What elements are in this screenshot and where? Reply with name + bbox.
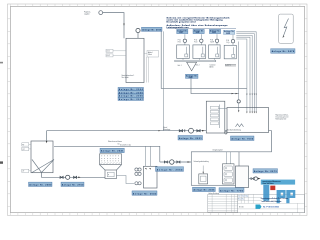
svg-text:Zul.1: Zul.1 (107, 51, 111, 53)
OUTFALL (249, 169, 296, 185)
inner pump box (107, 172, 114, 177)
filter cell 2 (224, 172, 233, 177)
inlet arrow into clarifier (46, 141, 48, 143)
side tag box (147, 51, 159, 58)
tag leader wires (113, 51, 126, 56)
svg-text:2003: 2003 (212, 32, 216, 34)
svg-text:Anlage Nr. 2064: Anlage Nr. 2064 (157, 168, 184, 171)
inner drawing border (11, 6, 305, 212)
BOTTOM2035 (191, 148, 248, 192)
dosing pump D2 (200, 39, 203, 42)
air line 2 (236, 34, 254, 113)
receiving water banner (261, 180, 295, 185)
tee mark (184, 129, 186, 132)
svg-text:2040: 2040 (189, 76, 193, 79)
svg-text:Umbau Belebung: Umbau Belebung (208, 193, 219, 195)
main inflow wire (47, 130, 207, 132)
air line 4 (236, 37, 250, 112)
clarifier tag box 2 (22, 147, 29, 150)
svg-text:Anlage Nr. 2007: Anlage Nr. 2007 (119, 98, 144, 101)
sludge drain (42, 173, 106, 178)
svg-text:C-Qu: C-Qu (226, 42, 230, 44)
svg-text:VerL 1: VerL 1 (178, 65, 182, 67)
svg-text:Anlage Nr. 2073: Anlage Nr. 2073 (254, 170, 277, 173)
label Anlage Nr. 2003 (209, 29, 220, 33)
pump P2016 circle (136, 28, 140, 32)
svg-text:Anlage Nr. 2041: Anlage Nr. 2041 (101, 150, 124, 153)
filter cell 1 (224, 166, 233, 171)
outfall valve (251, 178, 254, 180)
overflow link (219, 108, 228, 110)
instrument circle (237, 100, 240, 103)
ruler ticks (11, 4, 300, 6)
instrument drop arrow (238, 103, 240, 111)
svg-text:VerL 2: VerL 2 (196, 65, 200, 67)
svg-text:P 02: P 02 (194, 40, 197, 42)
polymer pump circle (99, 11, 103, 15)
svg-text:Bea: Bea (238, 199, 241, 201)
blower pair 3 (135, 182, 138, 185)
revision table grid (208, 194, 238, 212)
label Anlage Nr. 7005 (231, 136, 255, 141)
label Anlage Nr. 2002 (193, 29, 204, 33)
transfer wire (225, 130, 227, 132)
dosing pump D1 (183, 39, 186, 42)
red logo square (270, 186, 275, 191)
selector tank body (206, 101, 225, 133)
label Anlage Nr. 2035 (193, 187, 216, 191)
label Anlage Nr. 2042 (132, 191, 157, 195)
ipp letter p2 (286, 190, 295, 203)
CLUSTER (175, 29, 237, 79)
pump P2064 (170, 160, 174, 164)
svg-text:Zulauf: Zulauf (163, 127, 168, 129)
outfall pump (254, 177, 257, 180)
compressor stub (202, 166, 204, 173)
svg-text:Speicherbecken 1: Speicherbecken 1 (122, 75, 135, 77)
instrument line (238, 42, 240, 100)
title block rows (238, 197, 305, 209)
vessel B3 (209, 45, 221, 59)
drop pipe from pump label (161, 31, 247, 88)
POLYMER FEED (84, 11, 125, 39)
pump P2750 (66, 175, 70, 179)
drop pipe to main line (163, 31, 165, 130)
TITLEBLOCK (208, 193, 305, 213)
label Anlage Nr. 7780 (219, 188, 244, 193)
inlet tag box 2 (106, 54, 113, 57)
effluent pump line (160, 161, 192, 163)
centering mark left upper (0, 62, 3, 64)
svg-text:Zul.2: Zul.2 (107, 55, 111, 57)
pump P2031 (189, 128, 194, 133)
outfall arrow (258, 178, 261, 180)
internal cell stack (211, 106, 219, 109)
svg-text:Druckluft gespeist wird: Druckluft gespeist wird (167, 21, 197, 24)
diffuser tips (246, 112, 257, 114)
air line 5 (236, 39, 247, 112)
svg-text:Drosselung gem. der: Drosselung gem. der (276, 116, 289, 118)
flow arrow (78, 177, 80, 179)
svg-text:2002: 2002 (196, 32, 200, 34)
teal glyph (256, 205, 262, 209)
svg-text:Anlage Nr. 2035: Anlage Nr. 2035 (193, 189, 215, 192)
side tag leader (144, 53, 147, 55)
effluent air line (54, 146, 160, 162)
final tank body (236, 166, 249, 188)
air header from blower (191, 78, 239, 93)
air risers (146, 146, 151, 166)
dosing pump D4 (231, 40, 234, 43)
svg-text:Anlage Nr. 2016: Anlage Nr. 2016 (142, 29, 162, 32)
clarifier tag box 1 (22, 143, 29, 146)
svg-text:Anlage Nr. 2042: Anlage Nr. 2042 (133, 192, 157, 195)
air line 3 (236, 35, 252, 112)
label Anlage Nr. 2016 (142, 27, 163, 31)
svg-text:NaOH: NaOH (210, 41, 214, 43)
fixed bed reactor box (100, 154, 122, 165)
AIRLINES (191, 32, 257, 114)
valve V3 (179, 130, 182, 132)
housing inner drops (227, 152, 231, 164)
bottom hatch (101, 162, 121, 164)
vessel drains (183, 58, 214, 60)
aeration tank body (227, 108, 269, 133)
pump P2016 riser (137, 33, 139, 39)
valve V5 (164, 161, 167, 163)
label Anlage Nr. 2008 (224, 30, 235, 34)
manifold trough (175, 60, 216, 62)
connector to blowers (117, 176, 135, 184)
blower pair 1 (135, 168, 138, 171)
svg-text:QIT: QIT (22, 149, 24, 151)
ipp letter p1 (277, 190, 286, 203)
svg-text:Gez: Gez (242, 196, 245, 198)
filter cell 3 (224, 178, 233, 183)
media dots (101, 156, 119, 162)
UNIT2041 (100, 140, 135, 184)
transfer valve dot (225, 132, 227, 134)
biofilter housing (191, 152, 239, 186)
label Anlage Nr. 2478 (271, 49, 295, 53)
hopper under reactor (100, 165, 122, 170)
valve V2 (74, 176, 77, 178)
compressor inner (201, 176, 207, 181)
tag leaders (29, 144, 31, 170)
svg-text:Anlage Nr. 2080: Anlage Nr. 2080 (29, 184, 52, 187)
outfall wire (249, 178, 252, 180)
title block columns (241, 194, 297, 212)
svg-text:2008: 2008 (226, 33, 230, 35)
header junction arrows (232, 93, 238, 94)
blower house box (144, 166, 158, 188)
air line 1 (236, 32, 256, 112)
vessel B2 (193, 45, 206, 59)
effluent drop pipe (239, 131, 272, 152)
svg-text:Ingenieurgesellschaft Prof. Cz: Ingenieurgesellschaft Prof. Czurda (261, 197, 288, 200)
wire polymer to tank (103, 13, 124, 39)
valve V1 (60, 176, 63, 178)
gray double bar (225, 65, 236, 66)
svg-text:zum Vorfluter: zum Vorfluter (263, 182, 274, 185)
valve V4 (197, 130, 200, 132)
TANKS (206, 101, 289, 152)
label Anlage Nr. 2041 (100, 148, 124, 153)
clarifier tag box 3 (22, 169, 29, 172)
intake marks (145, 168, 151, 170)
svg-text:Rahmenplan 500: Rahmenplan 500 (276, 118, 287, 120)
svg-text:P 01: P 01 (178, 40, 181, 42)
label Anlage Nr. 2073 (253, 169, 278, 173)
FEED TANK (106, 27, 247, 131)
side pipes (146, 57, 148, 83)
ipp letter i (263, 185, 269, 201)
label Anlage Nr. 2750 (61, 182, 84, 186)
label Anlage Nr. 2080 (29, 182, 53, 186)
inlet tag box 1 (106, 49, 113, 52)
dosing pump D3 (215, 39, 218, 42)
label Anlage Nr. 2064 (156, 167, 184, 172)
flow arrows on drops (246, 94, 257, 96)
internal riser (219, 105, 221, 129)
pump sump box (105, 170, 117, 179)
svg-text:Gep: Gep (245, 196, 248, 198)
svg-text:P: P (108, 175, 109, 177)
svg-text:Anlage Nr. 7005: Anlage Nr. 7005 (231, 138, 253, 141)
vessel B1 (177, 45, 190, 59)
FLARE (271, 14, 295, 53)
clarifier scraper V (32, 160, 54, 173)
label Anlage Nr. 2001 (177, 29, 188, 33)
svg-text:Anlage Nr. 2750: Anlage Nr. 2750 (62, 184, 84, 187)
flow arrow (202, 130, 205, 132)
label Anlage Nr. 2040 (186, 74, 199, 78)
svg-text:LIT: LIT (22, 171, 24, 173)
PARAGRAPH (167, 16, 237, 29)
BLOWER2042 (132, 146, 157, 195)
valve V6 (177, 161, 180, 163)
title block box (238, 194, 305, 212)
clarifier body (31, 141, 53, 173)
svg-text:P 03: P 03 (210, 40, 213, 42)
centering mark left lower (0, 161, 3, 163)
svg-text:Kla: Kla (242, 199, 244, 201)
svg-text:Anlage Nr. 7780: Anlage Nr. 7780 (220, 189, 244, 192)
svg-text:M 1:50: M 1:50 (239, 206, 244, 208)
vessel B4 (224, 45, 236, 59)
filter column housing (223, 164, 235, 184)
svg-text:FIT: FIT (22, 144, 24, 146)
label Anlage Nr. 2031 (178, 136, 203, 141)
svg-text:und Partner mbH, Karlsruhe: und Partner mbH, Karlsruhe (262, 200, 282, 203)
flow arrow (188, 161, 191, 163)
svg-text:P 04: P 04 (226, 40, 229, 42)
flame slash (283, 19, 289, 38)
level zigzag (236, 124, 244, 127)
compressor unit (199, 174, 208, 184)
junction tick (159, 130, 161, 131)
drop to clarifier (46, 131, 48, 141)
blower pair 2 (135, 172, 138, 175)
svg-text:Nr. P 08 031 B01: Nr. P 08 031 B01 (263, 206, 280, 209)
svg-text:Schwachgasbehandlung: Schwachgasbehandlung (194, 161, 209, 163)
flare stack box (279, 14, 294, 43)
funnel hopper (187, 62, 197, 71)
stacked labels block (118, 87, 144, 90)
svg-text:Anlage Nr. 2478: Anlage Nr. 2478 (272, 50, 295, 53)
CLARIFIER (22, 141, 160, 187)
LOGO (239, 185, 295, 209)
down arrow (237, 166, 239, 168)
arrow on drop pipe (123, 24, 124, 26)
note underline (167, 28, 237, 30)
svg-text:Anlage Nr. 2031: Anlage Nr. 2031 (179, 137, 202, 140)
svg-text:Regenwasserbehan-: Regenwasserbehan- (276, 114, 289, 116)
MAINLINE (47, 127, 207, 172)
connector stubs label-pump-vessel (185, 34, 233, 45)
svg-text:2001: 2001 (179, 32, 183, 34)
svg-text:zugabe: zugabe (84, 14, 90, 16)
tank T2016 body (126, 38, 144, 82)
